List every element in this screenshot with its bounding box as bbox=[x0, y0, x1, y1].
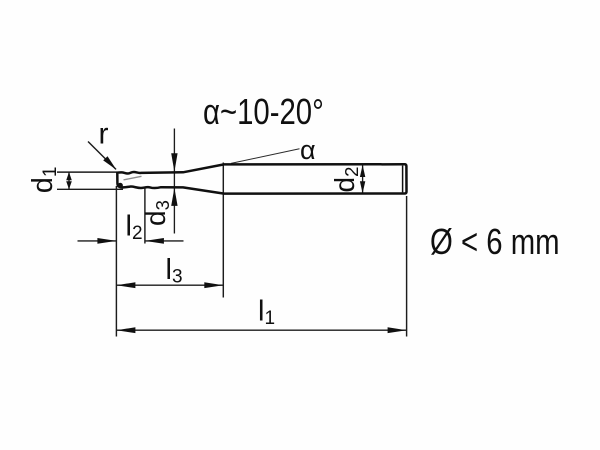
extension line left (tool tip, for l2 l3 l1) bbox=[115, 186, 117, 337]
extension line d1 bottom bbox=[57, 188, 123, 190]
dimension line l2 right shaft bbox=[145, 240, 184, 242]
svg-text:α: α bbox=[300, 135, 316, 165]
arrowhead d1 down bbox=[66, 181, 72, 189]
dimension line d1 bbox=[68, 172, 70, 189]
arrowhead r leader bbox=[103, 156, 116, 170]
cutter body outline (tip, neck, taper, shank) bbox=[117, 164, 406, 193]
dimension line l1 bbox=[116, 329, 406, 331]
flute line inside tip (faint) bbox=[124, 176, 142, 180]
shank end inner line bbox=[402, 166, 404, 193]
extension line l2 right bbox=[144, 189, 146, 244]
arrowhead l3 left bbox=[116, 282, 135, 288]
svg-text:Ø < 6 mm: Ø < 6 mm bbox=[430, 221, 560, 262]
arrowhead d2 up bbox=[360, 165, 365, 177]
arrowhead d3 top (down) bbox=[171, 153, 177, 172]
arrowhead l2 left (points right) bbox=[97, 238, 116, 244]
svg-text:d2: d2 bbox=[329, 167, 362, 193]
dimension line d3 vertical bbox=[173, 129, 175, 234]
leader line alpha bbox=[231, 149, 300, 164]
dimension line d2 bbox=[362, 165, 364, 193]
svg-text:d1: d1 bbox=[27, 167, 61, 194]
arrowhead d3 bottom (up) bbox=[171, 188, 177, 206]
arrowhead l1 left bbox=[116, 327, 135, 333]
extension line l1 right bbox=[406, 196, 408, 337]
arrowhead l1 right bbox=[388, 327, 407, 333]
dimension line l2 left shaft bbox=[78, 240, 117, 242]
extension line d1 top bbox=[57, 171, 117, 173]
arrowhead d2 down bbox=[360, 181, 365, 193]
arrowhead l3 right bbox=[204, 282, 223, 288]
extension line l3 right (neck/shank junction) bbox=[222, 163, 224, 298]
arrowhead l2 right (points left) bbox=[145, 238, 164, 244]
svg-text:l3: l3 bbox=[166, 254, 183, 288]
tip corner radius blob bbox=[118, 183, 123, 188]
dimension line l3 bbox=[116, 284, 223, 286]
svg-text:l1: l1 bbox=[258, 296, 275, 330]
svg-text:r: r bbox=[99, 118, 109, 151]
svg-text:α~10-20°: α~10-20° bbox=[203, 91, 324, 132]
leader line r bbox=[88, 142, 116, 170]
arrowhead d1 up bbox=[66, 172, 72, 180]
